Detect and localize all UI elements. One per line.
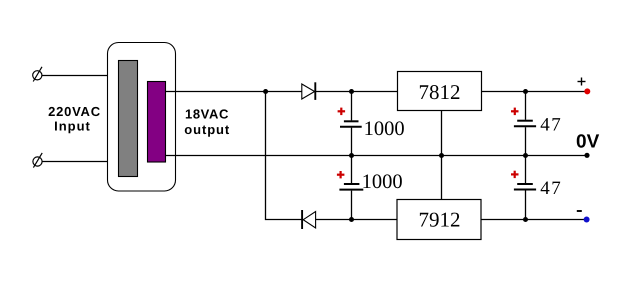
wire J2 to transformer primary [42,161,120,163]
wire 0V rail [166,155,588,157]
terminal J2 (220VAC input bottom) [33,153,42,168]
node: junction dot C4 bottom [523,217,528,222]
polarity + C3 (red) [511,108,519,116]
svg-text:47: 47 [540,178,562,199]
capacitor C1 1000uF stem top [351,92,353,121]
wire J1 to transformer primary [42,75,120,77]
transformer secondary winding (purple) [148,82,166,163]
transformer primary winding (gray) [119,61,138,177]
polarity + C4 (red) [511,171,519,178]
node: junction dot top branch [263,89,268,94]
polarity + output terminal (black) [578,78,586,86]
terminal - output (blue dot) [584,217,590,223]
capacitor C3 plates [514,121,536,127]
polarity + C2 (red) [337,171,345,178]
capacitor C2 plates [339,184,363,190]
node: junction dot 47 caps mid [523,153,528,158]
svg-text:output: output [184,122,230,137]
svg-text:1000: 1000 [362,171,403,193]
node: junction dot regulators ground [439,153,444,158]
wire D2 to 7912 input [316,219,397,221]
svg-text:220VAC: 220VAC [48,104,101,119]
terminal J1 (220VAC input top) [33,67,42,82]
wire secondary top to diode D1 [166,91,302,93]
wire 7812 output to + terminal [482,91,588,93]
wire branch down to negative rail [266,92,302,220]
capacitor C1 stem bottom [351,128,353,156]
node: junction dot C1 top [349,89,354,94]
svg-text:18VAC: 18VAC [185,106,229,121]
capacitor C4 plates [514,184,536,190]
node: junction dot C2 bottom [349,217,354,222]
regulator U1 7812 [398,72,482,111]
node: junction dot caps mid [349,153,354,158]
terminal + output (red dot) [584,88,590,94]
capacitor C4 stem bottom [525,191,527,220]
svg-text:0V: 0V [576,132,600,153]
capacitor C1 plates [340,121,362,127]
polarity + C1 (red) [338,108,346,116]
diode D2 (negative rectifier, pointing left) [302,210,316,229]
svg-text:Input: Input [54,119,91,134]
svg-text:47: 47 [540,114,562,135]
diode D1 (positive rectifier) [302,82,316,100]
capacitor C2 stem bottom [351,191,353,220]
capacitor C2 1000uF stem top [351,156,353,184]
wire regulators ground pin [441,111,443,200]
transformer T1 outline [108,43,176,192]
node: junction dot C3 top [523,89,528,94]
wire D1 to 7812 input [316,91,398,93]
polarity - output terminal (black) [577,210,582,212]
capacitor C3 47uF stem top [525,92,527,120]
capacitor C4 47uF stem top [525,156,527,184]
terminal 0V (black dot) [584,153,589,158]
svg-text:7912: 7912 [419,207,461,231]
regulator U2 7912 [397,200,481,240]
capacitor C3 stem bottom [525,127,527,155]
svg-text:1000: 1000 [364,118,405,140]
wire 7912 output to - terminal [481,219,587,221]
svg-text:7812: 7812 [419,80,461,104]
